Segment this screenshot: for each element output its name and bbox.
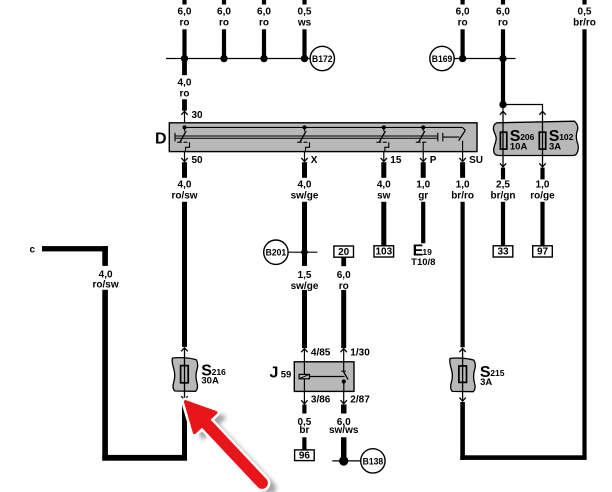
svg-text:br: br [299, 425, 309, 436]
wire stub top col2 [222, 0, 226, 5]
D bus end tick left [174, 133, 176, 142]
svg-text:B172: B172 [312, 54, 333, 65]
svg-text:20: 20 [338, 247, 350, 258]
svg-text:4/85: 4/85 [311, 348, 331, 359]
svg-text:6,0: 6,0 [178, 7, 192, 18]
wire stub below 2/87 [341, 405, 347, 414]
wire through fuse S216 [184, 348, 186, 400]
terminal X exit [304, 152, 306, 161]
connector B201 [264, 240, 288, 264]
red annotation arrow [186, 402, 262, 483]
svg-text:ro/sw: ro/sw [171, 191, 197, 202]
wire 50 to S216 [182, 202, 187, 347]
wire col4 to bus [302, 29, 306, 59]
D contact 30/50 [177, 125, 189, 151]
junction dot col4 [301, 55, 308, 62]
terminal P exit [422, 152, 424, 161]
svg-text:ro: ro [458, 17, 468, 28]
svg-text:30: 30 [192, 110, 204, 121]
svg-text:4,0: 4,0 [178, 180, 192, 191]
svg-text:br/ro: br/ro [573, 17, 596, 28]
bus line B169 to right [454, 58, 515, 60]
svg-text:15: 15 [390, 155, 402, 166]
wire to terminal 33 [501, 202, 505, 246]
fuse S216 symbol [181, 366, 189, 383]
svg-text:ro: ro [219, 17, 229, 28]
svg-text:103: 103 [375, 247, 392, 258]
svg-text:3A: 3A [549, 142, 561, 153]
wire X below D [302, 162, 307, 178]
junction dot B201 [301, 249, 308, 256]
svg-text:sw/ge: sw/ge [291, 191, 319, 202]
D internal top line [185, 127, 466, 130]
wire 4,0 ro below junction [182, 59, 187, 76]
svg-text:6,0: 6,0 [337, 270, 351, 281]
arrow out of J59 2/87 [343, 391, 345, 403]
svg-text:ws: ws [297, 17, 312, 28]
wire S216 to bottom [182, 401, 187, 458]
wire c branch vertical lower [102, 290, 108, 461]
junction dot fuse branch [499, 101, 506, 108]
DBOX ignition starter switch D [169, 123, 477, 152]
junction dot right col2 at bus [499, 55, 506, 62]
svg-text:206: 206 [520, 132, 534, 142]
svg-text:ro: ro [498, 17, 508, 28]
arrow out of fuse S206 [500, 163, 506, 167]
wire stub top far right [582, 0, 586, 5]
svg-text:4,0: 4,0 [178, 77, 192, 88]
wire col3 to bus [262, 29, 266, 59]
svg-text:ro: ro [259, 17, 269, 28]
J59 internal coil line [303, 362, 305, 392]
svg-text:0,5: 0,5 [298, 7, 312, 18]
svg-text:3/86: 3/86 [311, 394, 331, 405]
wire bottom right horizontal [460, 455, 586, 460]
connector B169 [430, 46, 454, 70]
terminal square 103 [374, 246, 394, 257]
branch wire to fuse S102 [503, 105, 543, 111]
wire far right full [582, 29, 586, 459]
svg-text:c: c [30, 244, 36, 255]
wire stub top right col2 [501, 0, 505, 5]
D internal bus double line [175, 135, 438, 137]
wire to terminal 96 [302, 437, 306, 450]
wire stub top col3 [262, 0, 266, 5]
wire 50 below D [182, 162, 187, 178]
arrow into fuse S102 [539, 111, 545, 115]
svg-text:1,0: 1,0 [416, 180, 430, 191]
svg-text:ro/sw: ro/sw [93, 280, 119, 291]
B201 branch line [288, 251, 317, 253]
wire col2 to bus [222, 29, 226, 59]
J59 contact blade [343, 362, 345, 371]
arrow out of J59 3/86 [303, 391, 305, 403]
svg-text:3A: 3A [480, 377, 492, 388]
wire 15 to terminal 103 [381, 202, 386, 246]
wire below S206 [501, 168, 505, 180]
D contact SU [459, 130, 466, 151]
wire stub top right col1 [461, 0, 465, 5]
D contact 15 [376, 125, 388, 151]
arrow into J59 1/30 [341, 349, 347, 353]
wire through fuse S102 [542, 111, 544, 166]
svg-text:33: 33 [497, 247, 509, 258]
terminal square 97 [533, 246, 553, 257]
wire c branch vertical upper [102, 246, 108, 266]
terminal square 20 [334, 246, 354, 257]
svg-text:1,0: 1,0 [456, 180, 470, 191]
svg-text:96: 96 [299, 451, 311, 462]
wire through fuse S215 [462, 349, 464, 401]
svg-text:19: 19 [422, 247, 432, 257]
wire below 20 [341, 257, 346, 266]
arrow into S215 [459, 349, 465, 353]
wire P to E19 [421, 202, 425, 244]
junction dot col2 [220, 55, 227, 62]
relay J59 box [294, 362, 354, 392]
ground junction line [332, 460, 360, 462]
fuse band S206/S102 [493, 121, 578, 155]
arrow out of S216 [181, 396, 187, 400]
wire right col2 down [501, 29, 505, 107]
junction dot col1 [181, 55, 188, 62]
D single line to SU contact [443, 136, 460, 138]
wire through fuse S206 [502, 111, 504, 166]
red annotation arrow white outline [186, 402, 262, 483]
wire stub below 3/86 [302, 405, 306, 414]
svg-text:6,0: 6,0 [456, 7, 470, 18]
arrow into S216 [181, 348, 187, 352]
svg-text:sw/ws: sw/ws [329, 425, 359, 436]
wire to ground point B138 [341, 437, 347, 458]
svg-text:59: 59 [281, 369, 292, 380]
wire col1 to bus [182, 29, 186, 59]
wire 20 to J59 1/30 [341, 290, 346, 348]
wire S215 to bottom [460, 402, 465, 460]
svg-text:0,5: 0,5 [578, 7, 592, 18]
stub to fuse S206 [502, 105, 504, 111]
svg-text:X: X [311, 155, 318, 166]
svg-text:T10/8: T10/8 [411, 257, 435, 268]
svg-text:P: P [430, 155, 437, 166]
J59 contact dot [342, 379, 346, 383]
wire SU to S215 [461, 202, 465, 347]
svg-text:10A: 10A [510, 142, 528, 153]
svg-text:6,0: 6,0 [257, 7, 271, 18]
fuse S102 symbol [539, 132, 545, 149]
arrow into terminal 30 [181, 111, 187, 115]
fuse S216 band blob [172, 358, 198, 392]
wire to terminal 97 [540, 202, 544, 246]
red arrow shadow [194, 407, 270, 488]
bus line left to B172 [166, 58, 309, 60]
svg-text:50: 50 [192, 155, 204, 166]
svg-text:B138: B138 [363, 456, 384, 467]
svg-text:30A: 30A [201, 376, 219, 387]
svg-text:1,0: 1,0 [536, 180, 550, 191]
ground dot [339, 456, 348, 465]
svg-text:br/gn: br/gn [491, 191, 516, 202]
terminal square 96 [295, 450, 315, 461]
svg-text:1,5: 1,5 [298, 270, 312, 281]
svg-text:102: 102 [559, 132, 573, 142]
D connector tick SU branch [442, 133, 444, 142]
wire bottom left horizontal [102, 455, 187, 461]
svg-text:1/30: 1/30 [350, 348, 370, 359]
svg-text:J: J [270, 364, 279, 381]
arrow into fuse S206 [500, 111, 506, 115]
fuse S206 symbol [500, 132, 506, 149]
wire c branch horizontal [42, 246, 108, 251]
fuse S215 band blob [450, 358, 476, 392]
svg-text:4,0: 4,0 [377, 180, 391, 191]
svg-text:97: 97 [537, 247, 549, 258]
svg-text:D: D [155, 130, 167, 147]
connector B138 [361, 449, 385, 473]
wire stub top col1 [182, 0, 186, 5]
wire SU below D [460, 162, 465, 178]
arrow out of fuse S102 [539, 163, 545, 167]
terminal square 33 [493, 246, 513, 257]
terminal 15 exit [383, 152, 385, 161]
wire 15 below D [381, 162, 386, 178]
svg-text:ro: ro [180, 17, 190, 28]
svg-text:B201: B201 [266, 248, 287, 259]
svg-text:2,5: 2,5 [496, 180, 510, 191]
wire right col1 to junction [461, 29, 465, 59]
wire 4,0 ro to terminal 30 [182, 99, 187, 110]
svg-text:6,0: 6,0 [496, 7, 510, 18]
terminal SU exit [462, 152, 464, 161]
svg-text:4,0: 4,0 [298, 180, 312, 191]
arrow out of S215 [459, 398, 465, 402]
svg-text:gr: gr [418, 191, 428, 202]
fuse S215 symbol [459, 366, 467, 382]
connector B172 [310, 46, 334, 70]
svg-text:B169: B169 [432, 54, 453, 65]
svg-text:SU: SU [469, 155, 483, 166]
D contact X [297, 125, 309, 151]
wire to J59 4/85 [302, 290, 307, 348]
svg-text:6,0: 6,0 [217, 7, 231, 18]
wire stub top col4 [302, 0, 306, 5]
wire below S102 [540, 168, 544, 180]
svg-text:ro: ro [180, 88, 190, 99]
svg-text:sw: sw [377, 191, 391, 202]
wire X to B201 junction [302, 202, 307, 266]
D bus end tick right [437, 133, 439, 142]
svg-text:2/87: 2/87 [350, 394, 370, 405]
svg-text:215: 215 [490, 368, 504, 378]
wire P below D [421, 162, 426, 178]
terminal 50 exit [184, 152, 186, 161]
junction dot col3 [260, 55, 267, 62]
arrow into J59 4/85 [301, 349, 307, 353]
D contact P [416, 125, 426, 151]
svg-text:br/ro: br/ro [451, 191, 474, 202]
svg-text:ro/ge: ro/ge [530, 191, 555, 202]
J59 relay coil [299, 374, 309, 378]
junction dot right col1 [459, 55, 466, 62]
J59 coil to contact line [310, 376, 345, 378]
